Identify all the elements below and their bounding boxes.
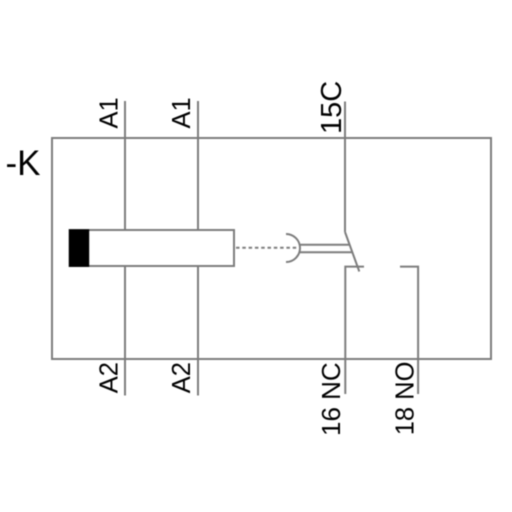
svg-text:-K: -K [6, 144, 41, 183]
relay outline box -K [52, 138, 491, 359]
wire: terminal A1 (second, top) [197, 101, 199, 230]
svg-text:A2: A2 [96, 362, 124, 393]
mechanical link (dashed) [236, 247, 298, 249]
svg-text:A2: A2 [168, 362, 196, 393]
svg-text:18 NO: 18 NO [391, 362, 419, 436]
delay symbol (semicircle) [286, 234, 300, 262]
svg-text:A1: A1 [168, 97, 196, 128]
wire: terminal A2 (second, bottom) [197, 266, 199, 396]
svg-text:A1: A1 [96, 97, 124, 128]
wire: terminal A1 (first, top) [124, 101, 126, 230]
fixed contact 16 NC [345, 267, 364, 394]
svg-text:16 NC: 16 NC [316, 362, 346, 436]
wire: terminal A2 (first, bottom) [124, 266, 126, 396]
linkage double line (lower) [300, 251, 352, 253]
switch moving contact blade [345, 232, 359, 272]
coil K1 body [70, 230, 235, 266]
linkage double line (upper) [300, 244, 350, 246]
svg-text:15C: 15C [316, 81, 348, 134]
wire: terminal 15 C (top) [344, 102, 346, 233]
fixed contact 18 NO [400, 267, 418, 394]
coil K1 black band [69, 229, 89, 267]
